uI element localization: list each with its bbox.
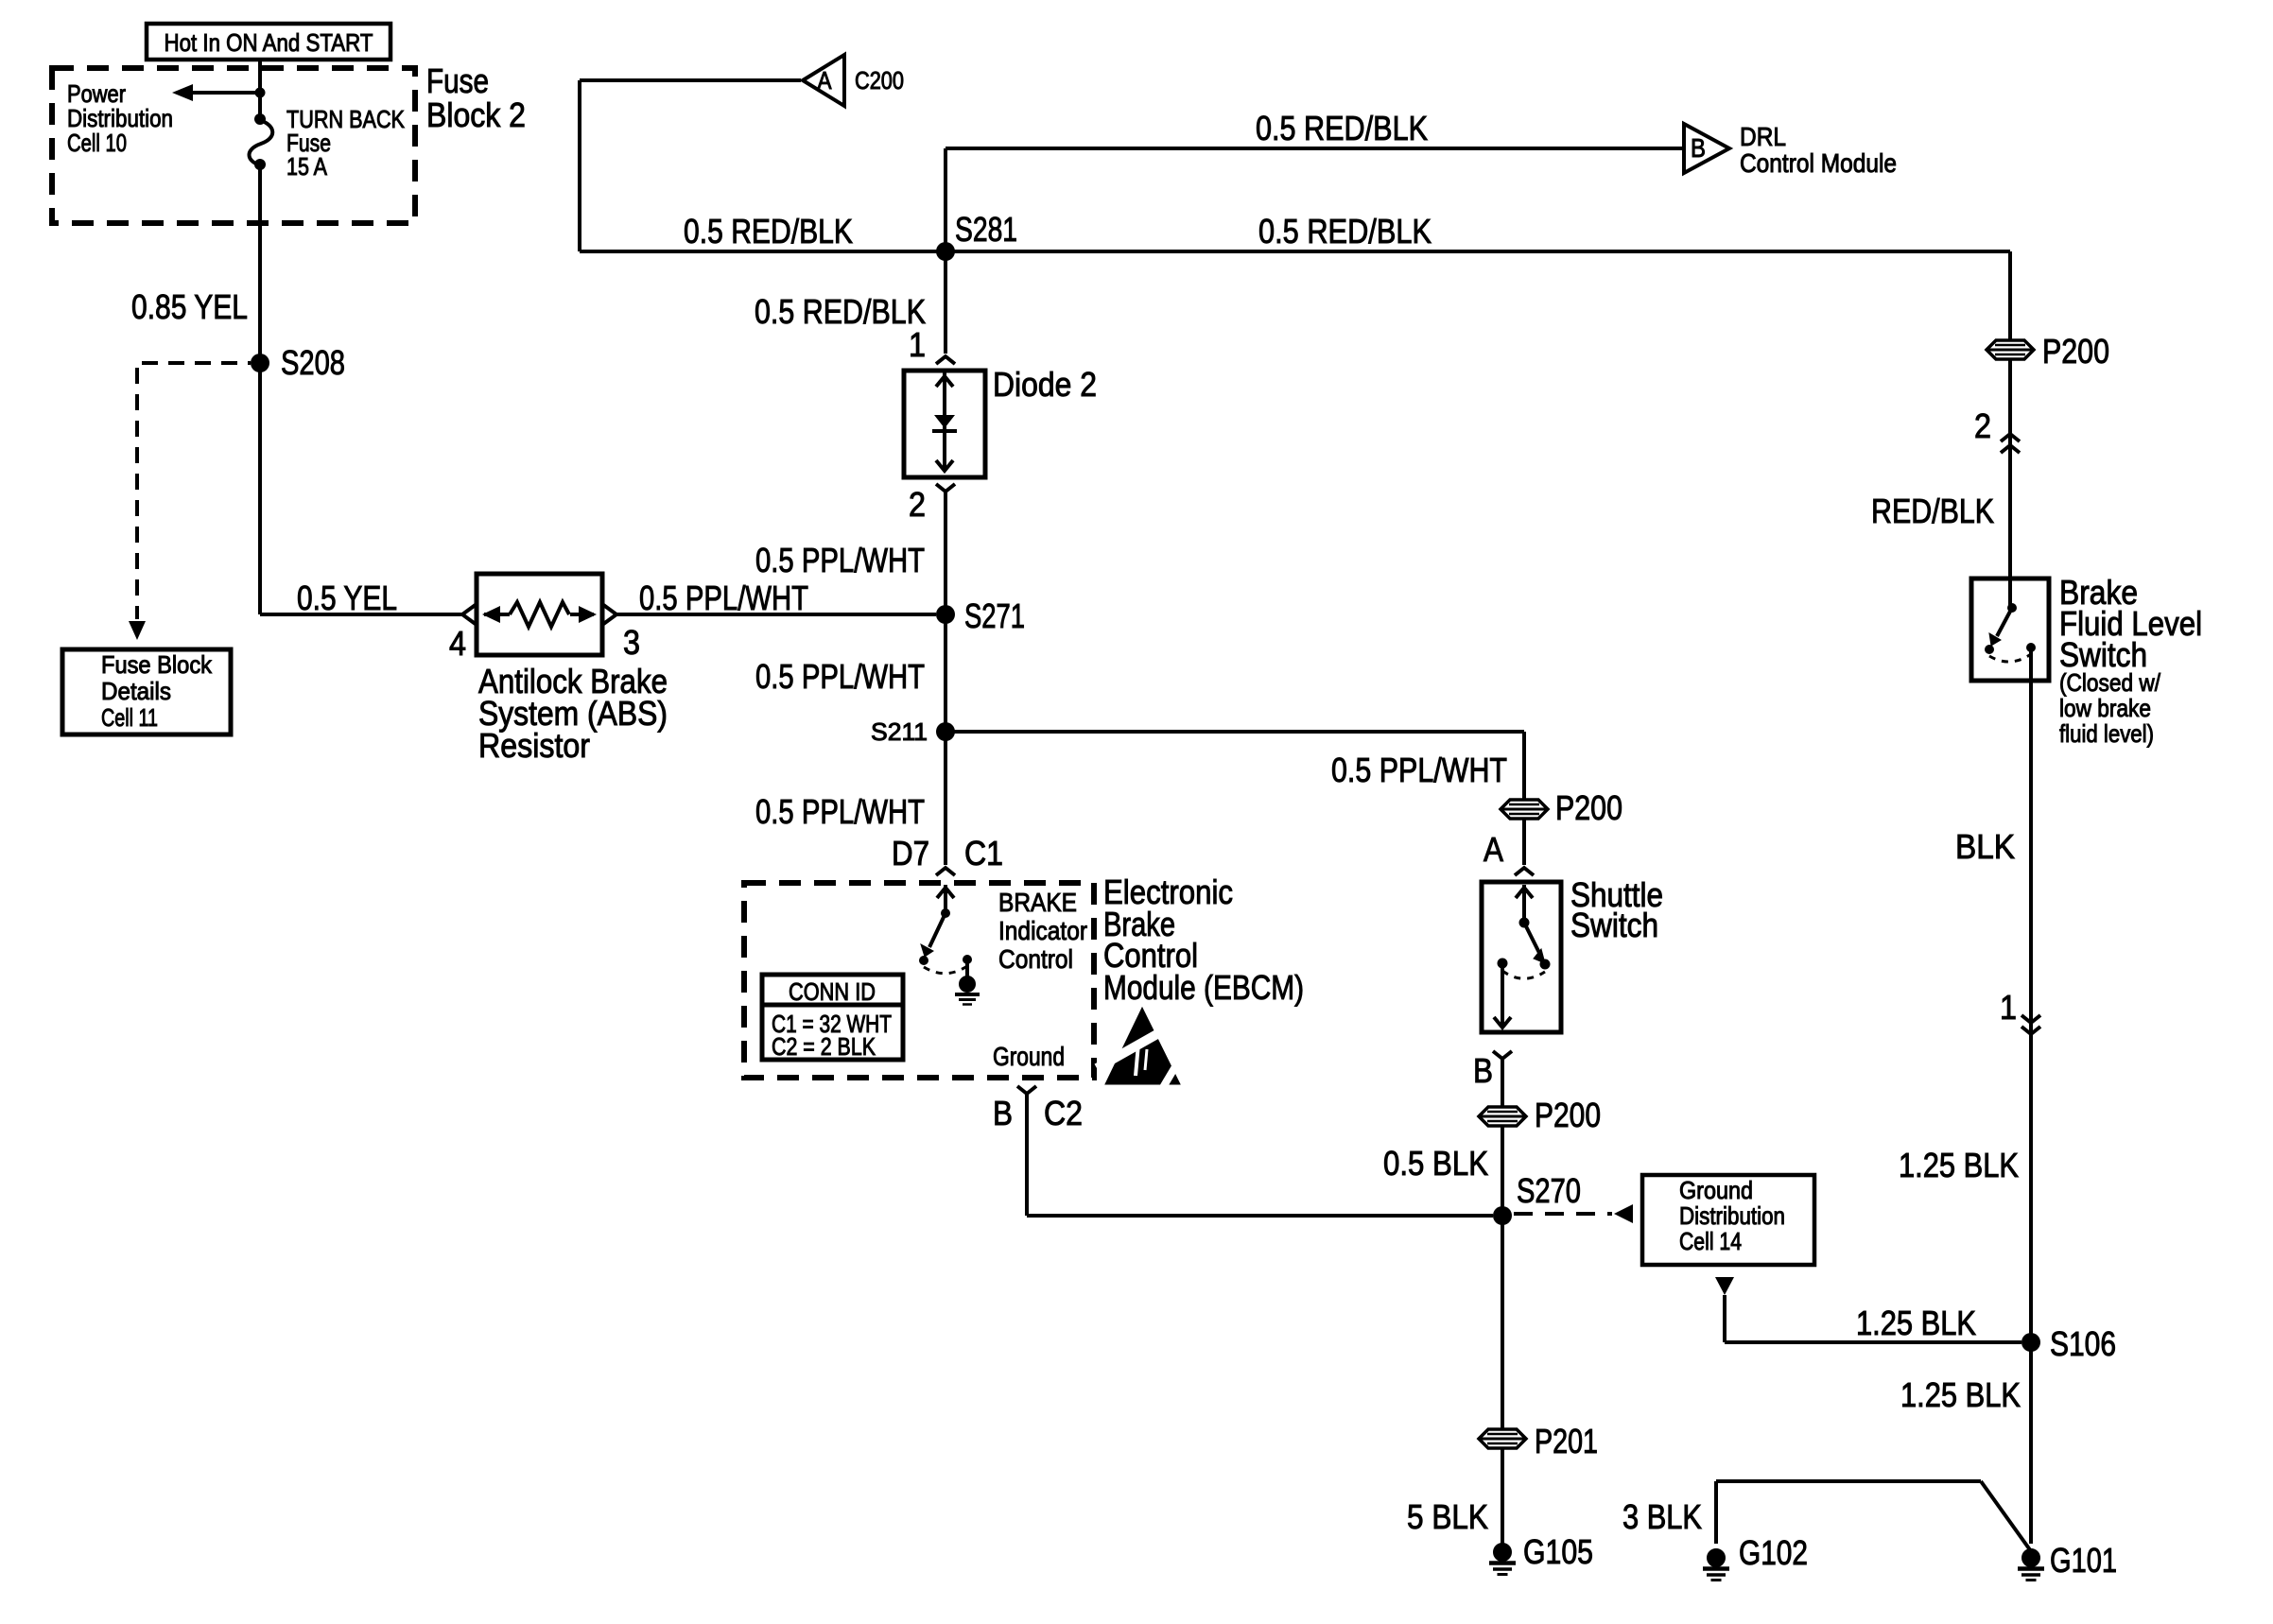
svg-text:3: 3 [623, 623, 640, 662]
svg-text:low brake: low brake [2059, 694, 2151, 722]
svg-text:0.5 PPL/WHT: 0.5 PPL/WHT [755, 541, 925, 579]
svg-text:0.5 BLK: 0.5 BLK [1383, 1144, 1488, 1183]
svg-text:0.5 PPL/WHT: 0.5 PPL/WHT [1331, 751, 1507, 789]
svg-text:RED/BLK: RED/BLK [1871, 492, 1994, 530]
svg-text:0.5 PPL/WHT: 0.5 PPL/WHT [755, 792, 925, 831]
svg-text:P200: P200 [1535, 1096, 1601, 1134]
svg-text:1.25 BLK: 1.25 BLK [1899, 1146, 2019, 1184]
svg-text:0.5 PPL/WHT: 0.5 PPL/WHT [755, 657, 925, 696]
svg-text:G105: G105 [1523, 1532, 1593, 1571]
svg-text:15 A: 15 A [286, 152, 328, 181]
svg-text:S208: S208 [281, 343, 345, 382]
svg-text:BRAKE: BRAKE [998, 888, 1077, 917]
svg-text:0.5 YEL: 0.5 YEL [297, 579, 397, 617]
svg-text:Hot In ON And START: Hot In ON And START [165, 28, 373, 57]
svg-text:A: A [818, 66, 833, 95]
svg-text:Distribution: Distribution [1679, 1201, 1785, 1230]
svg-text:fluid level): fluid level) [2059, 719, 2154, 748]
svg-text:C200: C200 [855, 66, 904, 95]
svg-text:0.5 RED/BLK: 0.5 RED/BLK [684, 212, 853, 251]
svg-text:A: A [1484, 830, 1503, 869]
svg-text:3 BLK: 3 BLK [1622, 1497, 1702, 1536]
svg-text:Control: Control [998, 944, 1073, 974]
svg-text:G101: G101 [2050, 1541, 2117, 1580]
svg-text:S271: S271 [964, 596, 1025, 635]
svg-text:D7: D7 [892, 834, 929, 872]
svg-text:1.25 BLK: 1.25 BLK [1900, 1375, 2021, 1414]
svg-text:S270: S270 [1517, 1171, 1581, 1210]
svg-text:1: 1 [909, 325, 926, 364]
svg-text:Cell 14: Cell 14 [1679, 1227, 1742, 1255]
svg-text:0.5 RED/BLK: 0.5 RED/BLK [755, 292, 926, 331]
svg-text:Cell 10: Cell 10 [67, 129, 127, 157]
svg-text:S211: S211 [871, 717, 928, 746]
svg-text:Fuse Block: Fuse Block [101, 650, 213, 679]
svg-text:C2 = 2 BLK: C2 = 2 BLK [772, 1032, 876, 1061]
svg-text:2: 2 [909, 485, 926, 524]
svg-text:Fuse: Fuse [426, 61, 489, 100]
svg-text:Module (EBCM): Module (EBCM) [1103, 968, 1304, 1007]
svg-text:P200: P200 [2042, 332, 2109, 371]
svg-text:B: B [1691, 133, 1706, 163]
svg-text:C2: C2 [1044, 1094, 1083, 1132]
svg-text:4: 4 [449, 624, 466, 663]
svg-text:1.25 BLK: 1.25 BLK [1856, 1304, 1976, 1342]
svg-text:P201: P201 [1535, 1422, 1598, 1460]
svg-text:0.85 YEL: 0.85 YEL [131, 287, 248, 326]
svg-text:B: B [993, 1094, 1013, 1132]
svg-text:P200: P200 [1555, 788, 1622, 827]
svg-text:Ground: Ground [993, 1042, 1065, 1071]
svg-text:DRL: DRL [1740, 122, 1786, 151]
svg-text:2: 2 [1974, 406, 1991, 445]
svg-text:C1: C1 [964, 834, 1003, 872]
svg-text:5 BLK: 5 BLK [1407, 1497, 1488, 1536]
svg-text:Diode 2: Diode 2 [993, 365, 1097, 404]
svg-text:S106: S106 [2050, 1324, 2116, 1363]
svg-text:B: B [1473, 1051, 1493, 1090]
svg-text:1: 1 [2000, 988, 2017, 1027]
svg-text:Resistor: Resistor [478, 726, 590, 765]
svg-text:Details: Details [101, 677, 171, 705]
svg-text:0.5 RED/BLK: 0.5 RED/BLK [1256, 109, 1428, 147]
svg-text:0.5 RED/BLK: 0.5 RED/BLK [1258, 212, 1431, 251]
svg-text:Indicator: Indicator [998, 916, 1087, 945]
svg-text:BLK: BLK [1955, 827, 2015, 866]
svg-text:Ground: Ground [1679, 1176, 1753, 1204]
svg-text:Cell 11: Cell 11 [101, 703, 158, 732]
svg-text:0.5 PPL/WHT: 0.5 PPL/WHT [639, 579, 808, 617]
svg-text:Switch: Switch [1570, 906, 1658, 944]
svg-text:CONN ID: CONN ID [789, 977, 876, 1006]
svg-text:(Closed w/: (Closed w/ [2059, 668, 2161, 697]
svg-text:Block 2: Block 2 [426, 95, 526, 134]
svg-text:G102: G102 [1739, 1533, 1808, 1572]
svg-text:S281: S281 [955, 210, 1017, 249]
svg-text:Control Module: Control Module [1740, 148, 1897, 178]
